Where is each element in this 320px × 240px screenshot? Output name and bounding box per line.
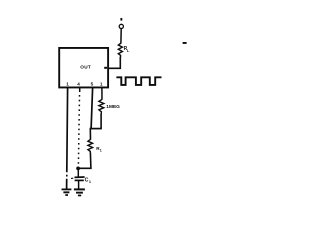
wire pin2 dotted down	[78, 88, 79, 166]
svg-text:1MEG: 1MEG	[106, 104, 120, 110]
capacitor C1	[71, 177, 85, 180]
ground (left)	[62, 189, 72, 196]
node junction dot	[76, 167, 80, 171]
wire connector pin3/pin4	[90, 128, 102, 130]
waveform output symbol	[116, 77, 161, 85]
svg-text:1: 1	[100, 148, 102, 152]
label RL	[124, 46, 130, 53]
label C1	[85, 178, 91, 185]
wire pin1 down	[66, 88, 68, 189]
wire junction to C1	[77, 168, 79, 176]
wire RL to output pin	[108, 57, 120, 69]
resistor 1MEG	[99, 99, 104, 114]
wire pin4 down	[101, 88, 103, 100]
svg-text:1: 1	[66, 81, 69, 86]
svg-text:1: 1	[100, 81, 103, 86]
svg-text:OUT: OUT	[80, 65, 91, 70]
wire 1MEG to connector	[100, 114, 102, 129]
IC U1 box	[59, 48, 108, 87]
svg-text:4: 4	[77, 81, 80, 86]
ground (under C1)	[74, 188, 85, 196]
wire R1 to junction	[77, 153, 91, 169]
svg-text:5: 5	[91, 81, 94, 86]
wire connector to R1	[89, 129, 91, 140]
resistor RL	[118, 43, 122, 57]
resistor R1	[88, 139, 93, 153]
svg-text:1: 1	[89, 180, 91, 184]
wire terminal to RL	[120, 29, 122, 44]
label R1	[96, 146, 102, 153]
svg-text:L: L	[127, 48, 130, 53]
pin tick output (right edge)	[104, 67, 107, 69]
terminal +V supply	[119, 18, 123, 29]
wire C1 to ground	[78, 181, 80, 189]
wire pin3 down	[91, 88, 93, 129]
